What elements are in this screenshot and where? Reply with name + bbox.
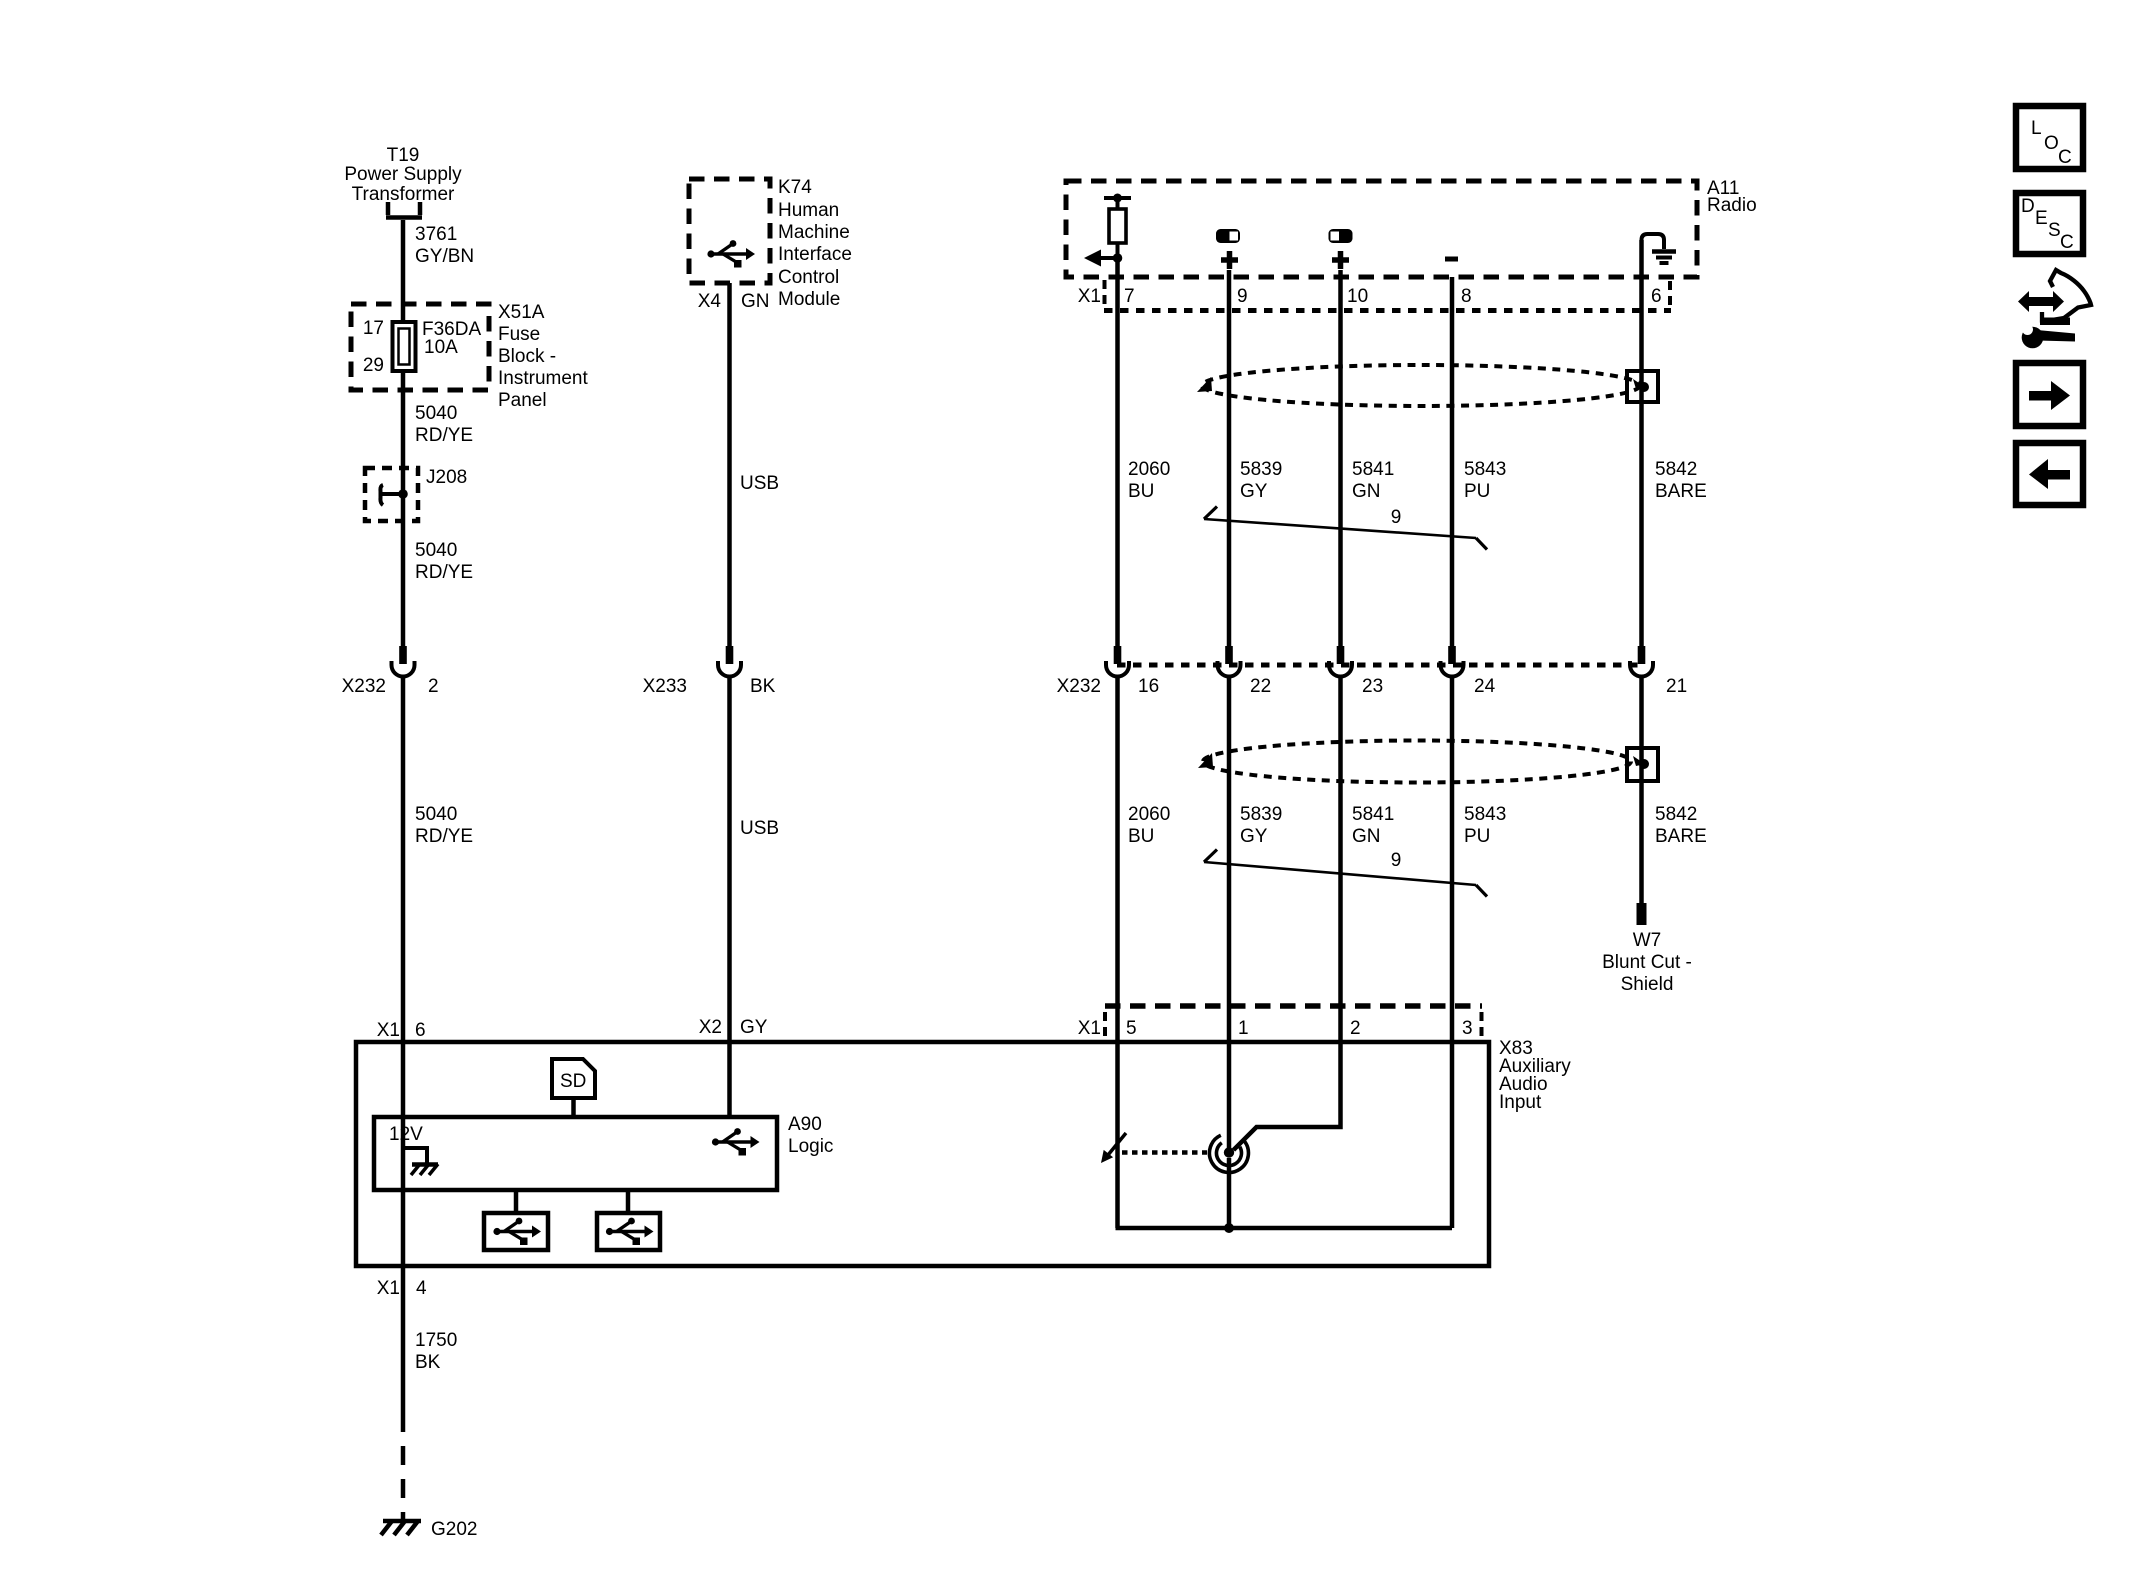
- sidebar tools icon double arrow: [2018, 291, 2064, 312]
- fuse F36DA: [393, 322, 416, 371]
- ground G202: [381, 1521, 421, 1535]
- svg-text:Control: Control: [778, 267, 839, 288]
- sidebar LOC box: [2016, 106, 2083, 169]
- ground symbol radio pin 6: [1642, 234, 1677, 263]
- label X1 pin 4 A90: [377, 1278, 427, 1299]
- svg-text:USB: USB: [740, 818, 779, 839]
- svg-text:BK: BK: [415, 1352, 441, 1373]
- label A90 Logic: [788, 1114, 833, 1157]
- svg-text:2: 2: [1350, 1018, 1361, 1039]
- svg-text:GN: GN: [1352, 826, 1381, 847]
- svg-text:23: 23: [1362, 676, 1383, 697]
- svg-text:PU: PU: [1464, 826, 1490, 847]
- svg-text:5842: 5842: [1655, 459, 1697, 480]
- sidebar DESC box: [2016, 193, 2083, 254]
- svg-text:BU: BU: [1128, 481, 1154, 502]
- svg-text:5: 5: [1126, 1018, 1137, 1039]
- label wire 5040 RD/YE section 3: [415, 804, 473, 847]
- svg-text:Human: Human: [778, 200, 839, 221]
- logic module A90 box: [374, 1117, 777, 1190]
- wire count 9 slash 1: [1204, 507, 1487, 550]
- svg-text:5839: 5839: [1240, 459, 1282, 480]
- sidebar next arrow box: [2016, 363, 2083, 426]
- label W7 Blunt Cut - Shield: [1602, 930, 1692, 995]
- ellipse 1 left arrowhead: [1197, 377, 1212, 392]
- wire A90 to usb port 1: [514, 1190, 519, 1213]
- svg-text:Shield: Shield: [1621, 974, 1674, 995]
- wire pin 9: [1227, 270, 1232, 647]
- svg-text:GN: GN: [1352, 481, 1381, 502]
- svg-text:T19: T19: [387, 145, 420, 166]
- svg-text:24: 24: [1474, 676, 1496, 697]
- svg-text:21: 21: [1666, 676, 1687, 697]
- radio X1 connector strip dotted line: [1104, 308, 1671, 313]
- connector X232 pin 23: [1329, 646, 1352, 677]
- transformer T19 symbol: [386, 202, 422, 218]
- usb port box 1: [484, 1213, 548, 1250]
- svg-text:1: 1: [1238, 1018, 1249, 1039]
- svg-text:GY: GY: [740, 1017, 768, 1038]
- svg-text:4: 4: [416, 1278, 427, 1299]
- SD card symbol: [552, 1059, 595, 1098]
- label 5839 GY section 1: [1240, 459, 1282, 502]
- label X83 Auxiliary Audio Input: [1499, 1038, 1571, 1113]
- wire pin 10: [1338, 270, 1343, 647]
- svg-text:X1: X1: [1078, 286, 1101, 307]
- ellipse 2 left arrowhead: [1198, 753, 1213, 768]
- wire 5843 PU lower: [1450, 675, 1455, 1228]
- svg-text:GY: GY: [1240, 481, 1268, 502]
- svg-text:5839: 5839: [1240, 804, 1282, 825]
- svg-text:10: 10: [1347, 286, 1368, 307]
- X83 strip left separator: [1103, 1012, 1107, 1040]
- svg-text:SD: SD: [560, 1071, 586, 1092]
- X83 strip right separator: [1480, 1012, 1484, 1040]
- wire 3761 T19 to fuse: [401, 220, 406, 647]
- speaker icon pin 10: [1329, 229, 1353, 243]
- X83 connector strip dashed line: [1105, 1003, 1482, 1009]
- svg-text:D: D: [2021, 196, 2035, 217]
- sidebar tools icon wrench: [2020, 321, 2075, 349]
- fuse block X51A dashed box: [351, 304, 489, 390]
- svg-text:X2: X2: [699, 1017, 722, 1038]
- svg-text:PU: PU: [1464, 481, 1490, 502]
- svg-text:A90: A90: [788, 1114, 822, 1135]
- svg-text:Input: Input: [1499, 1092, 1542, 1113]
- shield terminal box 1: [1627, 371, 1658, 402]
- svg-text:RD/YE: RD/YE: [415, 425, 473, 446]
- jack detect dashed link: [1122, 1150, 1207, 1155]
- svg-text:RD/YE: RD/YE: [415, 562, 473, 583]
- radio A11 dashed box: [1066, 181, 1697, 277]
- shield terminal box 2: [1627, 748, 1658, 781]
- label 5842 BARE section 1: [1655, 459, 1707, 502]
- wire USB below X233: [727, 675, 732, 1119]
- wire 5040 below X232: [401, 675, 406, 1432]
- splice J208 dashed box: [365, 468, 418, 521]
- label X232 2: [342, 676, 439, 697]
- svg-text:10A: 10A: [424, 337, 458, 358]
- wire 5842 BARE lower: [1639, 675, 1644, 903]
- label X51A Fuse Block - Instrument Panel: [498, 302, 588, 411]
- usb icon A90: [712, 1128, 760, 1155]
- svg-text:S: S: [2048, 220, 2061, 241]
- svg-text:X1: X1: [1078, 1018, 1101, 1039]
- svg-text:Transformer: Transformer: [352, 184, 455, 205]
- label 5841 GN section 1: [1352, 459, 1394, 502]
- svg-text:E: E: [2035, 208, 2048, 229]
- svg-text:Power Supply: Power Supply: [344, 164, 462, 185]
- svg-text:2060: 2060: [1128, 459, 1170, 480]
- svg-text:9: 9: [1391, 850, 1402, 871]
- sidebar previous arrow box: [2016, 443, 2083, 505]
- internal ground A90: [403, 1148, 438, 1175]
- junction dot bus: [1224, 1223, 1234, 1233]
- wire SD to A90: [571, 1098, 576, 1119]
- svg-text:Radio: Radio: [1707, 195, 1757, 216]
- usb icon port 1: [493, 1218, 541, 1245]
- usb icon K74: [707, 240, 755, 267]
- svg-text:7: 7: [1124, 286, 1135, 307]
- jack detect arrow pin 5: [1101, 1133, 1126, 1163]
- svg-text:X232: X232: [1057, 676, 1101, 697]
- svg-text:Block -: Block -: [498, 346, 556, 367]
- label 5839 GY section 2: [1240, 804, 1282, 847]
- wire pin 6 shield: [1639, 240, 1644, 647]
- wire 5839 GY lower: [1227, 675, 1232, 1152]
- svg-text:X233: X233: [643, 676, 687, 697]
- svg-text:Interface: Interface: [778, 244, 852, 265]
- connector X233: [718, 646, 741, 677]
- wire 1750 dashed to ground: [401, 1432, 406, 1521]
- svg-text:Machine: Machine: [778, 222, 850, 243]
- svg-text:K74: K74: [778, 177, 812, 198]
- wire USB K74 to X233: [727, 283, 732, 647]
- wire pin 7: [1115, 258, 1120, 647]
- plus sign pin 9: [1221, 251, 1238, 269]
- ground bus X83: [1116, 1226, 1453, 1231]
- svg-text:5040: 5040: [415, 403, 457, 424]
- twisted pair ellipse 1: [1202, 365, 1640, 406]
- connector X232 pin 22: [1218, 646, 1241, 677]
- svg-text:O: O: [2044, 133, 2059, 154]
- label X1 pin 6 A90: [377, 1020, 426, 1041]
- svg-text:5040: 5040: [415, 804, 457, 825]
- svg-text:X51A: X51A: [498, 302, 545, 323]
- connector X232 pin 2: [392, 646, 415, 677]
- svg-text:16: 16: [1138, 676, 1159, 697]
- svg-text:G202: G202: [431, 1519, 477, 1540]
- label 5843 PU section 2: [1464, 804, 1506, 847]
- svg-text:C: C: [2060, 232, 2074, 253]
- svg-text:Fuse: Fuse: [498, 324, 540, 345]
- radio X1 strip left separator: [1103, 280, 1107, 307]
- svg-text:2: 2: [428, 676, 439, 697]
- svg-text:1750: 1750: [415, 1330, 457, 1351]
- svg-text:3761: 3761: [415, 224, 457, 245]
- label X2 GY: [699, 1017, 768, 1038]
- wire count 9 slash 2: [1204, 850, 1487, 897]
- svg-text:5843: 5843: [1464, 459, 1506, 480]
- svg-text:17: 17: [363, 318, 384, 339]
- svg-text:USB: USB: [740, 473, 779, 494]
- svg-text:BK: BK: [750, 676, 776, 697]
- svg-text:X4: X4: [698, 291, 722, 312]
- svg-text:8: 8: [1461, 286, 1472, 307]
- svg-text:GN: GN: [741, 291, 770, 312]
- svg-text:GY: GY: [1240, 826, 1268, 847]
- svg-text:X232: X232: [342, 676, 386, 697]
- svg-text:C: C: [2058, 147, 2072, 168]
- label F36DA 10A: [422, 319, 481, 358]
- label 5843 PU section 1: [1464, 459, 1506, 502]
- svg-text:L: L: [2031, 118, 2042, 139]
- svg-text:BU: BU: [1128, 826, 1154, 847]
- svg-text:5843: 5843: [1464, 804, 1506, 825]
- wire pin 8: [1450, 277, 1455, 647]
- svg-text:RD/YE: RD/YE: [415, 826, 473, 847]
- transformer T19 label: [344, 145, 462, 205]
- sidebar tools icon arrow outline: [2040, 270, 2091, 325]
- wire jack to bus: [1227, 1158, 1232, 1228]
- label wire 3761 GY/BN: [415, 224, 474, 267]
- label wire 5040 RD/YE upper: [415, 403, 473, 446]
- svg-text:9: 9: [1237, 286, 1248, 307]
- svg-text:6: 6: [415, 1020, 426, 1041]
- usb icon port 2: [606, 1218, 654, 1245]
- svg-text:Module: Module: [778, 289, 840, 310]
- X232 row dotted line: [1117, 663, 1641, 668]
- module K74 dashed box: [689, 179, 770, 283]
- audio jack symbol: [1209, 1135, 1248, 1172]
- svg-text:9: 9: [1391, 507, 1402, 528]
- label 2060 BU section 1: [1128, 459, 1170, 502]
- svg-text:5842: 5842: [1655, 804, 1697, 825]
- label X4 GN: [698, 291, 770, 312]
- twisted pair ellipse 2: [1203, 741, 1631, 783]
- svg-text:X1: X1: [377, 1020, 400, 1041]
- connector X232 pin 24: [1441, 646, 1464, 677]
- svg-text:BARE: BARE: [1655, 826, 1707, 847]
- label K74 Human Machine Interface Control Module: [778, 177, 852, 310]
- svg-text:3: 3: [1462, 1018, 1473, 1039]
- svg-text:X1: X1: [377, 1278, 400, 1299]
- connector X232 pin 16: [1106, 646, 1129, 677]
- label X233 BK: [643, 676, 776, 697]
- svg-text:5040: 5040: [415, 540, 457, 561]
- svg-text:29: 29: [363, 355, 384, 376]
- wire A90 to usb port 2: [626, 1190, 631, 1213]
- wire 2060 BU lower: [1115, 675, 1120, 1228]
- usb port box 2: [597, 1213, 660, 1250]
- svg-text:GY/BN: GY/BN: [415, 246, 474, 267]
- speaker icon pin 9: [1216, 229, 1240, 243]
- antenna symbol radio: [1084, 194, 1131, 267]
- svg-text:Blunt Cut -: Blunt Cut -: [1602, 952, 1692, 973]
- plus sign pin 10: [1332, 251, 1349, 269]
- label 2060 BU section 2: [1128, 804, 1170, 847]
- svg-text:12V: 12V: [389, 1124, 423, 1145]
- wire 5841 GN lower: [1234, 675, 1341, 1150]
- svg-text:Panel: Panel: [498, 390, 547, 411]
- svg-text:BARE: BARE: [1655, 481, 1707, 502]
- auxiliary audio input X83 outer box: [356, 1042, 1489, 1266]
- svg-text:6: 6: [1651, 286, 1662, 307]
- svg-text:W7: W7: [1633, 930, 1662, 951]
- svg-text:22: 22: [1250, 676, 1271, 697]
- label 5841 GN section 2: [1352, 804, 1394, 847]
- svg-text:5841: 5841: [1352, 804, 1394, 825]
- svg-text:5841: 5841: [1352, 459, 1394, 480]
- label A11 Radio: [1707, 178, 1757, 216]
- svg-text:Instrument: Instrument: [498, 368, 588, 389]
- splice J208 symbol: [380, 485, 407, 505]
- svg-text:Logic: Logic: [788, 1136, 833, 1157]
- connector X232 pin 21: [1630, 646, 1653, 677]
- blunt cut terminal W7: [1637, 903, 1647, 925]
- svg-text:J208: J208: [426, 467, 467, 488]
- label wire 5040 RD/YE lower: [415, 540, 473, 583]
- label wire 1750 BK: [415, 1330, 457, 1373]
- label 5842 BARE section 2: [1655, 804, 1707, 847]
- radio X1 strip right separator: [1668, 281, 1672, 307]
- svg-text:2060: 2060: [1128, 804, 1170, 825]
- minus sign pin 8: [1445, 257, 1458, 262]
